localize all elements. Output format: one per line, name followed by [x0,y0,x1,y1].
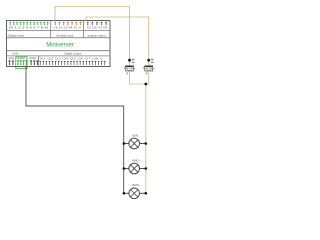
junction dot BWM1 top [128,59,131,62]
power terminal block (green frame) [16,57,28,68]
motion sensor BWM2 [143,59,154,75]
svg-text:LAN: LAN [12,52,18,56]
lamp BM2 [123,158,148,173]
svg-text:Digital Output: Digital Output [65,52,82,56]
24V supply terminals [8,58,14,66]
lamp BM3 [123,183,148,198]
digital input terminals [9,22,49,30]
junction dot BWM2 top [147,59,150,62]
svg-text:BM2: BM2 [132,158,139,162]
svg-text:BM3: BM3 [132,183,139,187]
svg-text:I1 I2 I3 I4 G V: I1 I2 I3 I4 G V [54,26,81,30]
Miniserver M1 body [7,21,111,67]
link terminals [30,58,39,66]
svg-text:Analog Input: Analog Input [56,33,73,37]
svg-text:BM1: BM1 [132,133,139,137]
wire 24V power to lamp rail left [26,66,124,194]
lamp BM1 [123,133,148,148]
svg-text:Digital Input: Digital Input [8,33,24,37]
wire AI1 to sensor BWM1 (analog) [55,7,130,66]
motion sensor BWM1 [124,59,135,75]
wire BWM1 bottom to junction [130,71,149,84]
svg-text:O1 O2 O3 O4: O1 O2 O3 O4 [87,26,108,30]
svg-text:Q1 Q2 Q3 Q4 Q5 Q6 Q7 Q8: Q1 Q2 Q3 Q4 Q5 Q6 Q7 Q8 V [40,58,104,61]
analog input terminals [54,22,81,30]
digital output terminals [39,58,105,66]
wire AO1 to sensor BWM2 (analog) [86,17,149,66]
wire BWM2 bottom (analog) [148,71,150,84]
analog output terminals [87,22,108,30]
svg-text:Miniserver: Miniserver [46,41,74,48]
svg-text:M 1 2 3 4 5 6 7 8 M: M 1 2 3 4 5 6 7 8 M [9,26,49,30]
lamp rail right (analog) [145,84,147,193]
junction dot sensors [144,83,147,86]
svg-text:analog output: analog output [87,33,105,37]
